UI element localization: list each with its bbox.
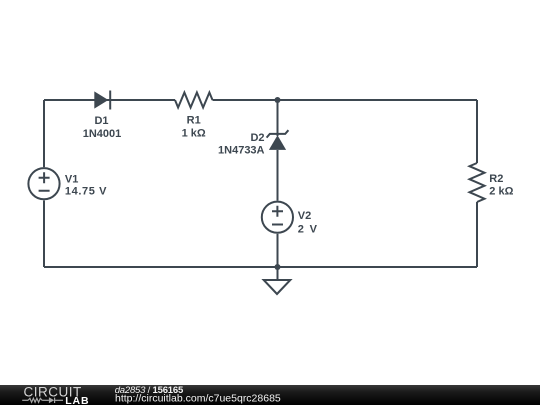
svg-text:1 kΩ: 1 kΩ bbox=[182, 127, 206, 139]
svg-text:V2: V2 bbox=[298, 210, 311, 222]
svg-text:R1: R1 bbox=[187, 114, 201, 126]
svg-text:1N4001: 1N4001 bbox=[83, 128, 122, 140]
svg-text:http://circuitlab.com/c7ue5qrc: http://circuitlab.com/c7ue5qrc28685 bbox=[115, 393, 281, 405]
svg-text:R2: R2 bbox=[489, 173, 503, 185]
svg-text:D2: D2 bbox=[250, 132, 264, 144]
svg-text:LAB: LAB bbox=[65, 395, 89, 405]
svg-text:1N4733A: 1N4733A bbox=[218, 144, 265, 156]
svg-text:V1: V1 bbox=[65, 173, 78, 185]
svg-text:D1: D1 bbox=[94, 115, 108, 127]
svg-text:2 V: 2 V bbox=[298, 223, 318, 235]
svg-text:2 kΩ: 2 kΩ bbox=[489, 185, 513, 197]
svg-text:14.75 V: 14.75 V bbox=[65, 186, 107, 198]
